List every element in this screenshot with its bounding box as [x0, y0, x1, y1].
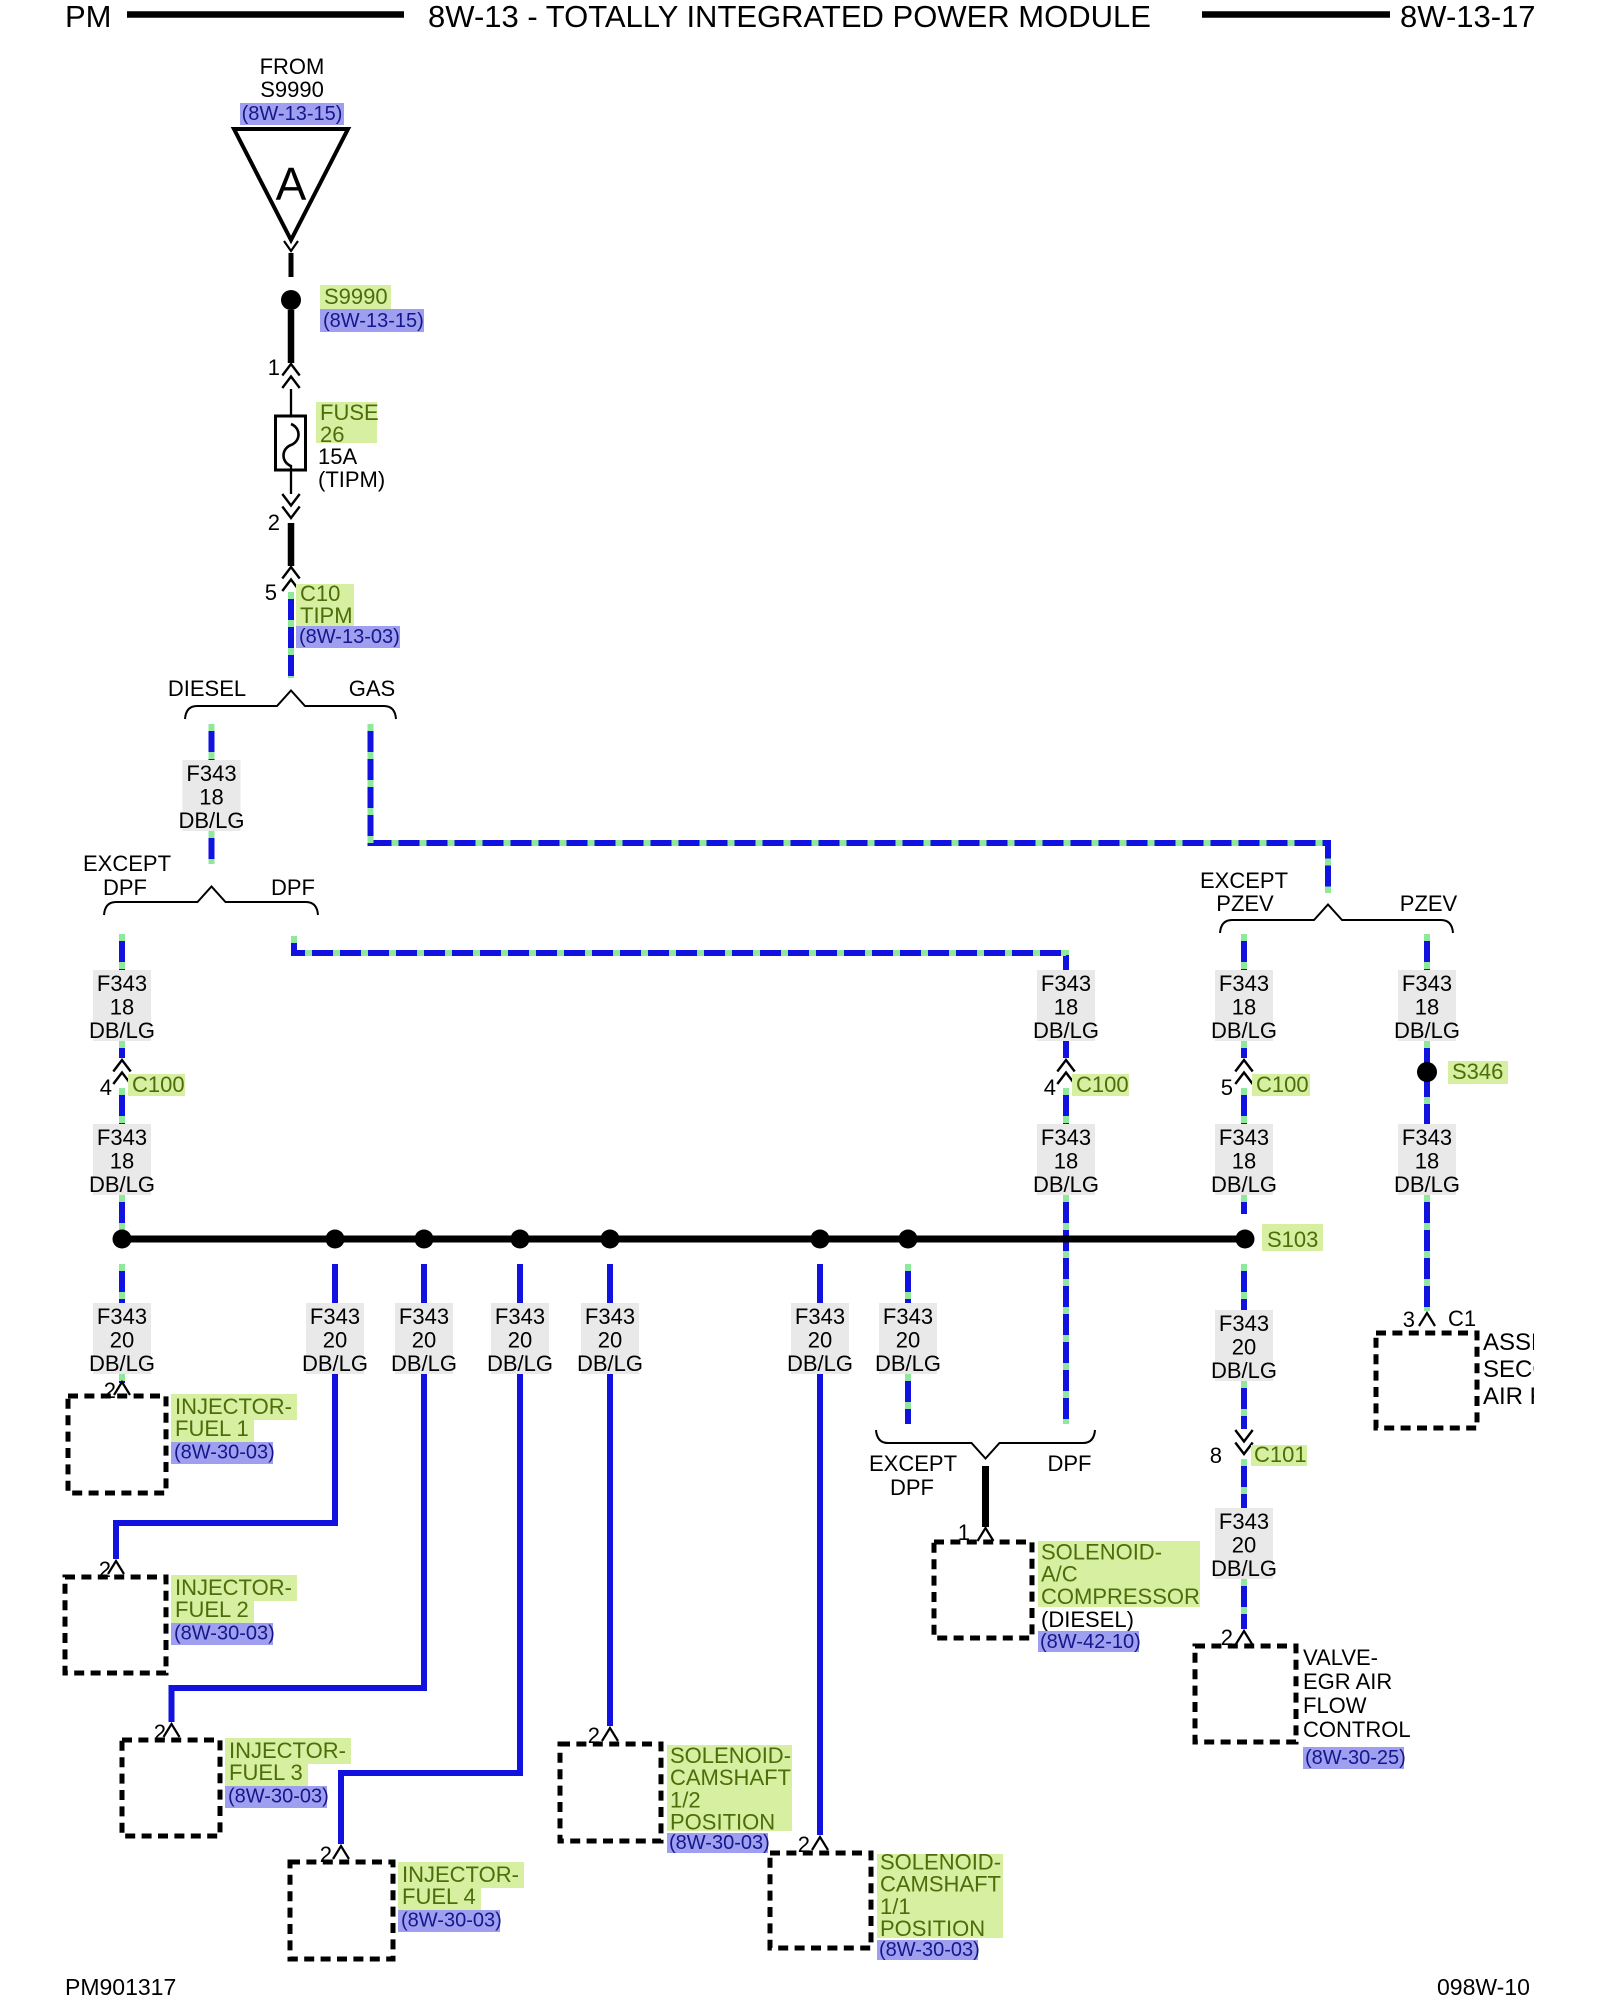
label C10 TIPM [296, 584, 354, 626]
brace split except-pzev/pzev [1220, 905, 1453, 934]
svg-text:DB/LG: DB/LG [1211, 1358, 1277, 1383]
svg-text:DB/LG: DB/LG [875, 1351, 941, 1376]
svg-text:DPF: DPF [890, 1475, 934, 1500]
svg-text:18: 18 [1054, 1149, 1078, 1174]
label INJECTOR-FUEL 4 [398, 1862, 524, 1888]
svg-text:F343: F343 [186, 761, 236, 786]
label SOLENOID-A/C COMPRESSOR (DIESEL) [1038, 1541, 1200, 1607]
svg-text:FUEL 1: FUEL 1 [175, 1416, 249, 1441]
wire label cam12 F343 20 DB/LG [581, 1303, 639, 1374]
wire label dpf-upper F343 18 DB/LG [1037, 970, 1095, 1041]
svg-text:PZEV: PZEV [1216, 891, 1274, 916]
svg-text:DIESEL: DIESEL [168, 676, 246, 701]
svg-text:F343: F343 [495, 1304, 545, 1329]
svg-text:4: 4 [100, 1075, 112, 1100]
reference (8W-13-15) [240, 103, 344, 125]
svg-text:PM: PM [65, 0, 112, 34]
bus junction x=908 [899, 1230, 918, 1249]
wire label pzev-upper F343 18 DB/LG [1398, 970, 1456, 1041]
svg-text:DB/LG: DB/LG [1033, 1172, 1099, 1197]
wire merge to a/c compressor [982, 1466, 989, 1527]
svg-text:(8W-13-15): (8W-13-15) [323, 310, 424, 332]
label INJECTOR-FUEL 1 [171, 1394, 297, 1420]
svg-text:S9990: S9990 [324, 284, 388, 309]
wire label inj2 F343 20 DB/LG [306, 1303, 364, 1374]
svg-text:EGR AIR: EGR AIR [1303, 1669, 1392, 1694]
wire label egr-upper F343 20 DB/LG [1215, 1310, 1273, 1381]
svg-text:(8W-30-03): (8W-30-03) [228, 1785, 329, 1807]
chevron below triangle [284, 241, 298, 251]
wire diesel branch upper [209, 724, 215, 762]
off-page connector A (triangle) [234, 129, 348, 240]
label FUSE 26 15A (TIPM) [316, 402, 377, 443]
svg-text:F343: F343 [1219, 1125, 1269, 1150]
svg-text:DB/LG: DB/LG [1211, 1172, 1277, 1197]
svg-text:F343: F343 [97, 971, 147, 996]
component INJECTOR-FUEL 1 (dashed box) [68, 1396, 166, 1493]
splice bus S103 [120, 1236, 1246, 1243]
brace split except-dpf/dpf [104, 887, 318, 916]
svg-text:C1: C1 [1448, 1306, 1476, 1331]
svg-text:18: 18 [110, 995, 134, 1020]
wire to splice S103 [1241, 1195, 1247, 1214]
svg-text:DB/LG: DB/LG [1033, 1018, 1099, 1043]
svg-text:DB/LG: DB/LG [1211, 1018, 1277, 1043]
brace merge except-dpf/dpf [876, 1430, 1095, 1459]
wire dpf down to except-dpf merge [1063, 1195, 1069, 1424]
fuse F26 symbol [290, 389, 292, 425]
svg-text:CONTROL: CONTROL [1303, 1717, 1411, 1742]
wire fuse to C10 [288, 523, 295, 566]
wire to C101 [1241, 1264, 1247, 1310]
label S103 [1262, 1224, 1323, 1251]
svg-text:F343: F343 [97, 1125, 147, 1150]
pin 5 connector C100 right [1235, 1060, 1252, 1084]
svg-text:F343: F343 [1219, 971, 1269, 996]
svg-text:DB/LG: DB/LG [1394, 1172, 1460, 1197]
wire diesel branch lower [209, 831, 215, 864]
wire label inj3 F343 20 DB/LG [395, 1303, 453, 1374]
wire camshaft solenoid 1/1 run [817, 1264, 823, 1835]
svg-text:F343: F343 [97, 1304, 147, 1329]
wire [1241, 1041, 1247, 1058]
bus junction x=424 [415, 1230, 434, 1249]
label INJECTOR-FUEL 3 [225, 1738, 351, 1764]
header rule right [1202, 11, 1390, 18]
label SOLENOID-CAMSHAFT 1/1 POSITION [877, 1854, 1003, 1938]
svg-text:(DIESEL): (DIESEL) [1041, 1607, 1134, 1632]
bus junction x=335 [326, 1230, 345, 1249]
svg-text:F343: F343 [1041, 971, 1091, 996]
component INJECTOR-FUEL 3 (dashed box) [122, 1740, 220, 1836]
bus junction x=520 [511, 1230, 530, 1249]
wire a/c solenoid stub [905, 1264, 911, 1303]
wire C10 to diesel/gas split [288, 592, 294, 678]
svg-text:(8W-30-03): (8W-30-03) [401, 1909, 502, 1931]
svg-text:EXCEPT: EXCEPT [1200, 868, 1288, 893]
wire label pzev-lower F343 18 DB/LG [1398, 1124, 1456, 1195]
wire to bus S103 [119, 1195, 125, 1236]
splice node S346 [1417, 1062, 1437, 1082]
svg-text:(8W-30-03): (8W-30-03) [669, 1832, 770, 1854]
svg-text:FUEL 3: FUEL 3 [229, 1760, 303, 1785]
svg-text:(8W-30-03): (8W-30-03) [879, 1939, 980, 1961]
wire pzev branch [1424, 934, 1430, 970]
wire [1241, 1088, 1247, 1124]
wire label dpf-lower F343 18 DB/LG [1037, 1124, 1095, 1195]
svg-text:8: 8 [1210, 1443, 1222, 1468]
svg-text:18: 18 [199, 785, 223, 810]
wire dashed black segment [289, 253, 294, 277]
wire except-pzev branch [1241, 934, 1247, 970]
svg-text:DB/LG: DB/LG [1211, 1556, 1277, 1581]
svg-text:S9990: S9990 [260, 77, 324, 102]
wire label exceptpzev-upper F343 18 DB/LG [1215, 970, 1273, 1041]
svg-text:DB/LG: DB/LG [391, 1351, 457, 1376]
component INJECTOR-FUEL 4 (dashed box) [290, 1862, 393, 1959]
brace split diesel/gas [185, 691, 396, 720]
splice end node S103 [1236, 1230, 1255, 1249]
svg-text:F343: F343 [1402, 971, 1452, 996]
svg-text:DB/LG: DB/LG [89, 1018, 155, 1043]
svg-text:4: 4 [1044, 1075, 1056, 1100]
svg-text:(8W-13-15): (8W-13-15) [242, 103, 343, 125]
svg-text:DB/LG: DB/LG [89, 1172, 155, 1197]
pin 8 connector C101 [1235, 1430, 1252, 1454]
svg-text:(8W-42-10): (8W-42-10) [1040, 1631, 1141, 1653]
wire injector4 run [341, 1264, 520, 1844]
svg-text:18: 18 [1415, 995, 1439, 1020]
svg-text:GAS: GAS [349, 676, 395, 701]
component SOLENOID-CAMSHAFT 1/2 POSITION (dashed box) [560, 1744, 661, 1841]
wire dpf crossing bus [1063, 1088, 1069, 1124]
svg-text:FROM: FROM [260, 54, 325, 79]
svg-text:(8W-30-25): (8W-30-25) [1305, 1747, 1406, 1769]
label S9990 [320, 285, 391, 309]
svg-text:C100: C100 [132, 1072, 185, 1097]
wire [905, 1374, 911, 1424]
wire label diesel F343 18 DB/LG [183, 760, 241, 831]
wire injector2 run [116, 1264, 335, 1559]
svg-text:C100: C100 [1256, 1072, 1309, 1097]
svg-text:F343: F343 [1219, 1311, 1269, 1336]
svg-text:DB/LG: DB/LG [1394, 1018, 1460, 1043]
reference (8W-13-15) [320, 309, 424, 332]
svg-text:F343: F343 [883, 1304, 933, 1329]
wire injector1 stub [119, 1264, 125, 1303]
svg-text:S346: S346 [1452, 1059, 1503, 1084]
svg-text:20: 20 [508, 1328, 532, 1353]
wire label egr-lower F343 20 DB/LG [1215, 1508, 1273, 1579]
svg-text:POSITION: POSITION [880, 1916, 985, 1941]
svg-text:18: 18 [1415, 1149, 1439, 1174]
svg-text:DPF: DPF [103, 875, 147, 900]
svg-text:TIPM: TIPM [300, 603, 353, 628]
wire injector3 run [172, 1264, 425, 1722]
svg-text:EXCEPT: EXCEPT [869, 1451, 957, 1476]
svg-text:F343: F343 [795, 1304, 845, 1329]
svg-text:1: 1 [268, 355, 280, 380]
svg-text:DB/LG: DB/LG [178, 808, 244, 833]
svg-text:18: 18 [1054, 995, 1078, 1020]
svg-text:A: A [276, 158, 307, 210]
wire label inj4 F343 20 DB/LG [491, 1303, 549, 1374]
svg-text:(TIPM): (TIPM) [318, 467, 385, 492]
reference (8W-13-03) [296, 626, 400, 648]
svg-text:VALVE-: VALVE- [1303, 1645, 1378, 1670]
svg-text:DB/LG: DB/LG [487, 1351, 553, 1376]
wire label inj1 F343 20 DB/LG [93, 1303, 151, 1374]
svg-text:FUEL 2: FUEL 2 [175, 1597, 249, 1622]
wire camshaft solenoid 1/2 run [607, 1264, 613, 1726]
wire dpf branch horizontal run [294, 936, 1066, 1058]
svg-text:F343: F343 [310, 1304, 360, 1329]
wire except-dpf branch [119, 934, 125, 970]
svg-text:C100: C100 [1076, 1072, 1129, 1097]
svg-text:PM901317: PM901317 [65, 1974, 176, 2000]
svg-text:F343: F343 [1402, 1125, 1452, 1150]
bus junction x=122 [113, 1230, 132, 1249]
svg-text:5: 5 [1221, 1075, 1233, 1100]
svg-text:(8W-30-03): (8W-30-03) [174, 1622, 275, 1644]
component INJECTOR-FUEL 2 (dashed box) [65, 1577, 166, 1673]
svg-text:DB/LG: DB/LG [302, 1351, 368, 1376]
wire to fuse pin 1 [288, 310, 295, 363]
bus junction x=610 [601, 1230, 620, 1249]
svg-text:15A: 15A [318, 444, 357, 469]
component SOLENOID-A/C COMPRESSOR (dashed box) [934, 1542, 1032, 1638]
wire through S346 [1424, 1041, 1430, 1124]
svg-text:(8W-30-03): (8W-30-03) [174, 1441, 275, 1463]
header rule left [127, 11, 404, 18]
wire to egr valve [1241, 1579, 1247, 1629]
label SOLENOID-CAMSHAFT 1/2 POSITION [667, 1745, 792, 1831]
label INJECTOR-FUEL 2 [171, 1575, 297, 1601]
svg-text:5: 5 [265, 580, 277, 605]
splice node S9990 [281, 290, 301, 310]
svg-text:8W-13 - TOTALLY INTEGRATED POW: 8W-13 - TOTALLY INTEGRATED POWER MODULE [428, 0, 1151, 34]
svg-text:DPF: DPF [271, 875, 315, 900]
svg-text:20: 20 [808, 1328, 832, 1353]
svg-text:EXCEPT: EXCEPT [83, 851, 171, 876]
wire [119, 1088, 125, 1124]
svg-text:F343: F343 [1041, 1125, 1091, 1150]
svg-text:20: 20 [110, 1328, 134, 1353]
svg-text:20: 20 [323, 1328, 347, 1353]
svg-text:18: 18 [110, 1149, 134, 1174]
svg-text:F343: F343 [399, 1304, 449, 1329]
svg-text:2: 2 [268, 510, 280, 535]
component ASSEMBLY-SECONDARY AIR (dashed box) [1376, 1333, 1477, 1428]
svg-text:098W-10: 098W-10 [1437, 1974, 1530, 2000]
pin 4 connector C100 middle [1057, 1060, 1074, 1084]
wire [1241, 1459, 1247, 1508]
bus junction x=820 [811, 1230, 830, 1249]
svg-text:POSITION: POSITION [670, 1810, 775, 1835]
svg-text:8W-13-17: 8W-13-17 [1400, 0, 1536, 34]
svg-text:C101: C101 [1254, 1442, 1307, 1467]
wire label exceptpzev-lower F343 18 DB/LG [1215, 1124, 1273, 1195]
svg-text:DB/LG: DB/LG [577, 1351, 643, 1376]
wire [119, 1041, 125, 1058]
svg-text:DB/LG: DB/LG [89, 1351, 155, 1376]
svg-text:FLOW: FLOW [1303, 1693, 1367, 1718]
svg-text:F343: F343 [1219, 1509, 1269, 1534]
wire gas branch to pzev split [371, 724, 1329, 893]
pin 2 [282, 494, 299, 518]
wire label cam11 F343 20 DB/LG [791, 1303, 849, 1374]
wire [119, 1374, 125, 1383]
svg-text:COMPRESSOR: COMPRESSOR [1041, 1584, 1200, 1609]
svg-text:F343: F343 [585, 1304, 635, 1329]
wire label exceptdpf-upper F343 18 DB/LG [93, 970, 151, 1041]
svg-text:20: 20 [1232, 1533, 1256, 1558]
svg-text:FUEL 4: FUEL 4 [402, 1884, 476, 1909]
svg-text:20: 20 [1232, 1335, 1256, 1360]
wire pzev to C1 [1424, 1195, 1430, 1311]
svg-text:(8W-13-03): (8W-13-03) [299, 626, 400, 648]
svg-text:PZEV: PZEV [1400, 891, 1458, 916]
wire [1241, 1381, 1247, 1429]
svg-text:2: 2 [104, 1378, 116, 1403]
wire label ac F343 20 DB/LG [879, 1303, 937, 1374]
svg-text:18: 18 [1232, 1149, 1256, 1174]
svg-text:18: 18 [1232, 995, 1256, 1020]
pin 4 connector C100 left [113, 1060, 130, 1084]
wire label exceptdpf-lower F343 18 DB/LG [93, 1124, 151, 1195]
component VALVE-EGR AIR FLOW CONTROL (dashed box) [1195, 1646, 1296, 1742]
svg-text:20: 20 [896, 1328, 920, 1353]
svg-text:3: 3 [1403, 1307, 1415, 1332]
svg-text:20: 20 [598, 1328, 622, 1353]
pin 5 connector C10 [282, 567, 299, 591]
svg-text:DPF: DPF [1048, 1451, 1092, 1476]
component SOLENOID-CAMSHAFT 1/1 POSITION (dashed box) [770, 1853, 871, 1948]
svg-text:20: 20 [412, 1328, 436, 1353]
svg-text:DB/LG: DB/LG [787, 1351, 853, 1376]
svg-text:S103: S103 [1267, 1227, 1318, 1252]
